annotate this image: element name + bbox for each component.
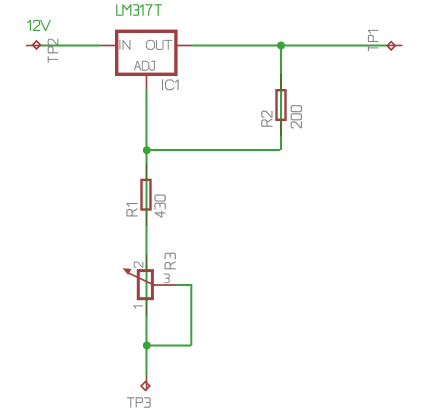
junction bottom loop [143,342,151,350]
testpoint TP2 [26,45,41,47]
overlap R1 pin top [146,164,148,182]
label TP3 [127,398,150,407]
pin name OUT [146,40,171,49]
label R2 [262,111,272,126]
overlap R2 pin top [280,74,282,91]
overlap R3 pin 2 [146,255,148,272]
value 200 [291,106,301,128]
junction ADJ/R1 [143,146,151,154]
wire R2 bottom to ADJ net [147,149,280,151]
label TP2 [48,39,58,62]
wire wiper horizontal green [176,284,192,286]
wire net 12V (TP2 to IN pin) [41,45,101,47]
label R3 [165,253,175,269]
wire VOUT branch down to R2 [280,46,282,151]
label R1 [127,204,137,216]
pin name ADJ [135,61,156,70]
net label 12V [28,20,51,30]
pin OUT stub [178,45,193,47]
pin name IN [120,40,130,49]
value 430 [155,195,165,217]
trimpot R3 wiper arrow [129,273,155,285]
wire wiper loop vertical [190,285,192,346]
trimpot wiper pin stub [153,284,176,286]
regulator IC1 body [117,31,176,74]
resistor R1 body [142,180,151,210]
wire ADJ vertical main [146,89,148,376]
value LM317T of IC1 [117,5,162,15]
wire wiper loop bottom [147,345,191,347]
overlap R3 pin 1 [146,297,148,316]
wire net VOUT (OUT pin to TP1) [192,45,386,47]
pin number 2 of R3 [134,262,143,267]
testpoint TP3 [146,375,148,390]
testpoint TP1 [387,45,403,47]
pin IN stub [101,45,115,47]
trimpot R3 body [138,271,152,299]
overlap R1 pin bottom [146,208,148,225]
pin number 1 of R3 [134,306,143,308]
pin number 3 of R3 [164,274,169,283]
pin ADJ stub [146,76,148,89]
label TP1 [368,30,378,50]
ref IC1 [162,80,178,90]
resistor R2 body [277,90,286,120]
junction VOUT/R2 [277,42,285,50]
overlap R2 pin bottom [280,119,282,136]
